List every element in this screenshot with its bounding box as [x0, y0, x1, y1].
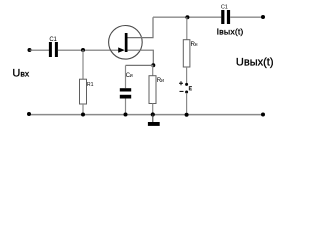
- node: source junction: [151, 63, 155, 67]
- resistor Rн: [183, 40, 190, 67]
- capacitor C1 (input coupling): [49, 42, 58, 57]
- wire: source to source-node corner: [128, 50, 154, 65]
- capacitor Cи: [120, 88, 131, 98]
- transistor VT1 (body circle): [109, 26, 143, 60]
- node: input terminal: [28, 48, 32, 52]
- wire: junction down to R1: [82, 50, 84, 79]
- transistor VT1 gate arrow: [118, 47, 125, 52]
- svg-text:Uвх: Uвх: [12, 67, 29, 79]
- wire: Rи bottom to ground rail: [152, 104, 154, 115]
- node: bottom right terminal: [261, 113, 265, 117]
- wire: battery minus to ground rail: [186, 93, 188, 115]
- node: ground junction: [151, 112, 155, 116]
- wire: Cи bottom to ground rail: [125, 99, 127, 115]
- wire: source node down to Rи: [152, 65, 154, 75]
- wire: drain to top rail corner: [128, 17, 154, 37]
- ground symbol stub: [152, 115, 154, 123]
- wire: C1 to gate (through node): [58, 49, 120, 51]
- svg-text:Uвых(t): Uвых(t): [236, 57, 274, 69]
- capacitor C1 (output coupling): [221, 10, 230, 24]
- svg-text:н: н: [195, 42, 198, 48]
- wire: Rн top lead: [186, 17, 188, 40]
- transistor VT1 base bar: [125, 33, 128, 52]
- wire: input terminal to C1: [30, 49, 50, 51]
- wire: Rн bottom to battery plus: [186, 67, 188, 84]
- wire: top rail right of C1: [230, 16, 263, 18]
- battery E plus sign: [179, 81, 183, 85]
- resistor R1: [80, 79, 87, 104]
- node: junction at Rн top: [185, 15, 189, 19]
- svg-text:и: и: [130, 73, 133, 79]
- node: R1 bottom junction: [81, 113, 85, 117]
- svg-text:и: и: [161, 78, 164, 84]
- svg-text:R1: R1: [87, 82, 94, 88]
- wire: bottom ground rail: [29, 114, 263, 116]
- svg-text:C1: C1: [49, 37, 57, 43]
- node: battery bottom junction: [185, 113, 189, 117]
- svg-text:Iвых(t): Iвых(t): [217, 26, 244, 36]
- ground symbol: [148, 122, 160, 126]
- wire: source node left to Cи: [126, 64, 154, 66]
- wire: R1 bottom to ground rail: [82, 104, 84, 115]
- wire: down to Cи top plate: [125, 65, 127, 88]
- node: bottom left terminal: [27, 112, 31, 116]
- resistor Rи: [149, 76, 156, 104]
- node: junction at R1 top: [81, 48, 85, 52]
- svg-text:C1: C1: [221, 5, 228, 11]
- battery E minus terminal: [185, 91, 188, 94]
- value label E: [189, 86, 192, 90]
- battery E minus sign: [180, 90, 184, 92]
- node: Cи bottom junction: [124, 113, 128, 117]
- wire: top rail left of C1: [153, 16, 221, 18]
- node: output current terminal: [261, 15, 265, 19]
- battery E plus terminal: [185, 83, 188, 86]
